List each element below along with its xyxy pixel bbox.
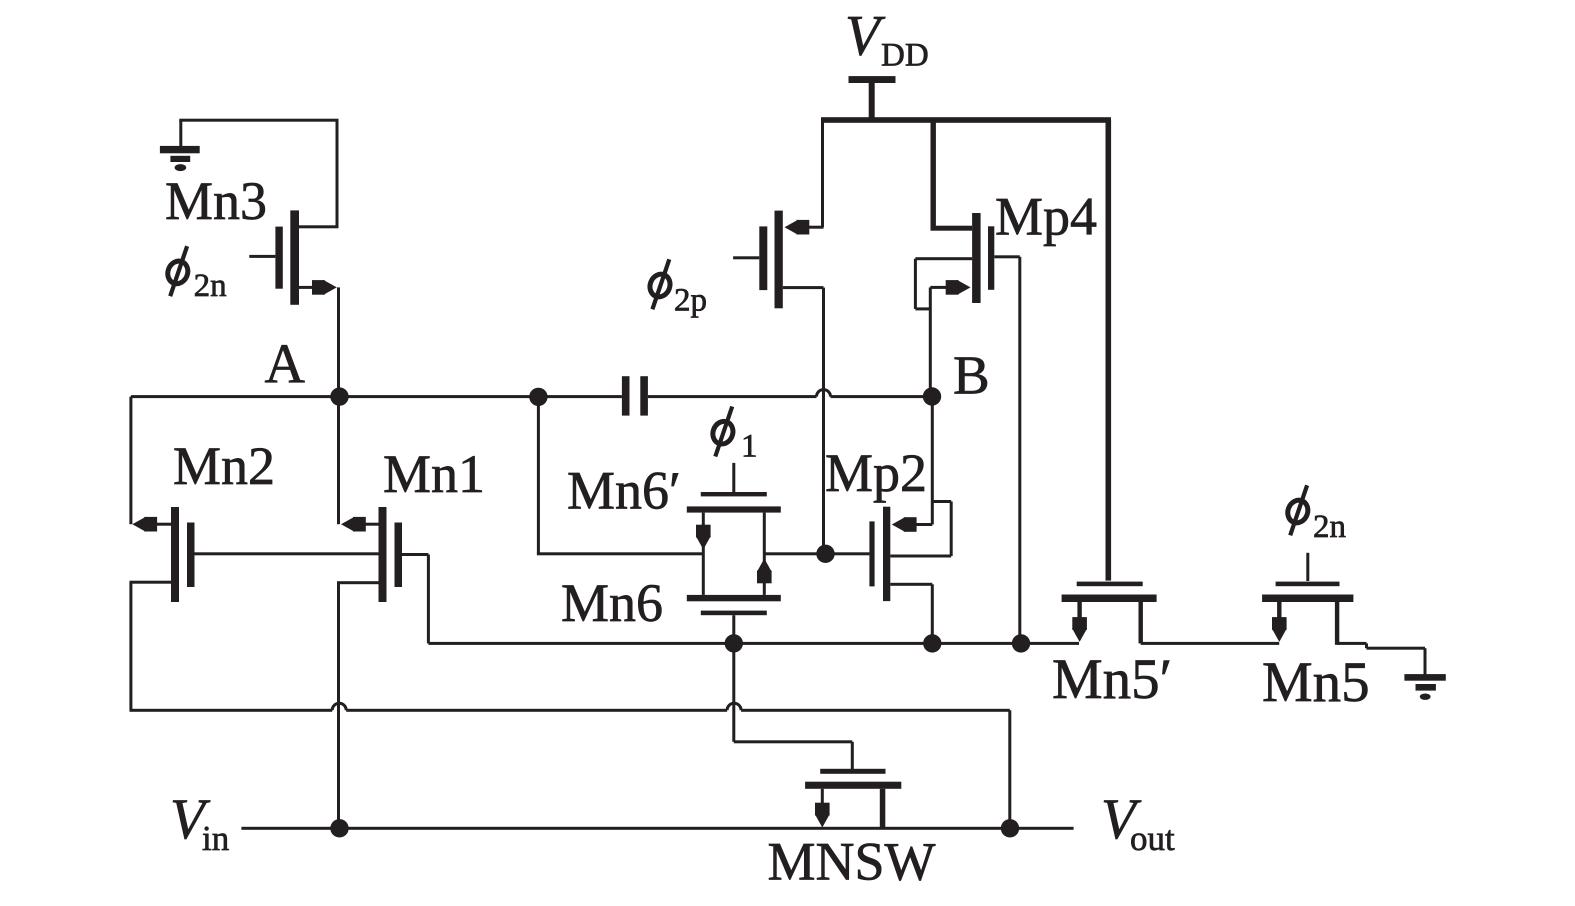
hop over Mn1 source line bbox=[332, 703, 346, 710]
svg-text:MNSW: MNSW bbox=[768, 832, 936, 892]
transistor Mn5p bbox=[1062, 582, 1157, 644]
wire Mp4 gate down to bus bbox=[1018, 257, 1021, 644]
label Mn2 bbox=[173, 436, 275, 496]
wire node A left drop to Mn2 drain bbox=[129, 397, 132, 525]
wire phi2p source down to mid node bbox=[822, 288, 825, 554]
node junction Mp4 gate on bus bbox=[1012, 634, 1030, 652]
svg-text:Mn5′: Mn5′ bbox=[1052, 648, 1172, 711]
wire Mn3 source to node A bbox=[337, 287, 340, 396]
label Mn3 bbox=[165, 171, 267, 231]
svg-text:Mn1: Mn1 bbox=[383, 444, 485, 504]
svg-text:2n: 2n bbox=[1313, 509, 1346, 545]
wire hop over phi2p source line bbox=[817, 390, 831, 397]
wire capacitor to node B bbox=[648, 395, 932, 398]
capacitor C1 (A to B) bbox=[622, 376, 648, 415]
svg-text:2n: 2n bbox=[194, 268, 227, 304]
svg-text:in: in bbox=[202, 819, 229, 858]
wire Mn1 source down to Vin bbox=[337, 583, 340, 829]
label V_in bbox=[170, 788, 229, 858]
label phi_2n (Mn5 gate) bbox=[1285, 485, 1346, 545]
wire node A down to Mn1 drain bbox=[337, 397, 340, 525]
node junction mid line bbox=[816, 545, 834, 563]
wire mid line left bbox=[537, 552, 703, 555]
transistor Mn5 bbox=[1262, 553, 1353, 645]
node A junction bbox=[330, 387, 348, 405]
label Mn6 bbox=[561, 573, 663, 633]
svg-text:1: 1 bbox=[741, 429, 758, 465]
transistor Mp4 bbox=[914, 120, 1020, 310]
wire Mn6 gate down to MNSW gate bbox=[732, 643, 854, 769]
node Vout junction bbox=[1001, 819, 1019, 837]
wire Mp2 source down to bus bbox=[931, 584, 934, 643]
svg-text:A: A bbox=[265, 334, 306, 396]
power VDD symbol bbox=[849, 76, 896, 119]
label phi_2p bbox=[647, 259, 707, 318]
wire Mn1 gate to bias bus bbox=[402, 553, 430, 643]
svg-text:2p: 2p bbox=[674, 282, 707, 318]
label V_DD bbox=[845, 5, 929, 74]
wire VDD rail bbox=[821, 117, 1111, 123]
wire feedback line (Mn2 source to Vout) bbox=[130, 709, 1012, 829]
hop over Mn6 gate line bbox=[727, 703, 741, 710]
wire Mp4 source down to node B bbox=[929, 287, 932, 396]
svg-text:out: out bbox=[1130, 819, 1175, 858]
svg-text:DD: DD bbox=[881, 38, 929, 74]
transistor pair Mn6p (top gate phi1) bbox=[687, 463, 781, 595]
transistor Mn1 bbox=[337, 507, 402, 602]
transistor MNSW bbox=[805, 769, 901, 829]
svg-text:V: V bbox=[845, 5, 886, 68]
svg-text:Mn5: Mn5 bbox=[1262, 651, 1370, 714]
transistor Mn6 (bottom gate) bbox=[687, 595, 781, 644]
wire phi2p drain up to rail bbox=[821, 119, 824, 227]
wire Mn2-Mn1 gate bbox=[195, 552, 379, 555]
transistor phi2p PMOS bbox=[733, 211, 823, 309]
wire mid line right bbox=[764, 552, 869, 555]
label B bbox=[953, 345, 990, 406]
node junction Mp2 source on bus bbox=[923, 634, 941, 652]
svg-text:Mn6: Mn6 bbox=[561, 573, 663, 633]
label phi_1 bbox=[710, 407, 758, 465]
label Mn5p bbox=[1052, 648, 1172, 711]
node junction at capacitor branch bbox=[529, 388, 547, 406]
ground (right) bbox=[1404, 674, 1445, 700]
transistor Mn2 bbox=[130, 507, 195, 602]
svg-text:Mp4: Mp4 bbox=[995, 187, 1097, 247]
wire Mn3 drain-to-ground loop bbox=[179, 119, 338, 227]
wire Vin-Vout line bbox=[241, 827, 1073, 830]
svg-text:B: B bbox=[953, 345, 990, 406]
svg-text:Mn3: Mn3 bbox=[165, 171, 267, 231]
svg-text:Mp2: Mp2 bbox=[825, 443, 927, 503]
svg-text:Mn6′: Mn6′ bbox=[567, 461, 681, 521]
node B junction bbox=[923, 387, 941, 405]
wire node A horizontal bbox=[131, 395, 622, 398]
label Mn5 bbox=[1262, 651, 1370, 714]
label phi_2n (Mn3 gate) bbox=[165, 246, 227, 304]
transistor Mn3 bbox=[249, 210, 338, 304]
wire node B down to Mp2 drain bbox=[931, 397, 934, 525]
label Mp4 bbox=[995, 187, 1097, 247]
ground (top left) bbox=[160, 146, 200, 171]
wire bus to ground bbox=[1424, 648, 1427, 675]
wire bias bus bbox=[428, 642, 1425, 650]
wire rail down to Mn5p gate bbox=[1106, 120, 1112, 581]
node Vin junction bbox=[330, 819, 348, 837]
label Mn6p bbox=[567, 461, 681, 521]
node junction Mn6 gate on bus bbox=[725, 634, 743, 652]
label Mn1 bbox=[383, 444, 485, 504]
wire node A branch down to Mn6 pair bbox=[537, 397, 540, 554]
label Mp2 bbox=[825, 443, 927, 503]
wire Mn2 source down bbox=[129, 582, 132, 710]
transistor Mp2 bbox=[869, 500, 952, 601]
label V_out bbox=[1101, 788, 1175, 858]
label MNSW bbox=[768, 832, 936, 892]
svg-text:Mn2: Mn2 bbox=[173, 436, 275, 496]
label A bbox=[265, 334, 306, 396]
